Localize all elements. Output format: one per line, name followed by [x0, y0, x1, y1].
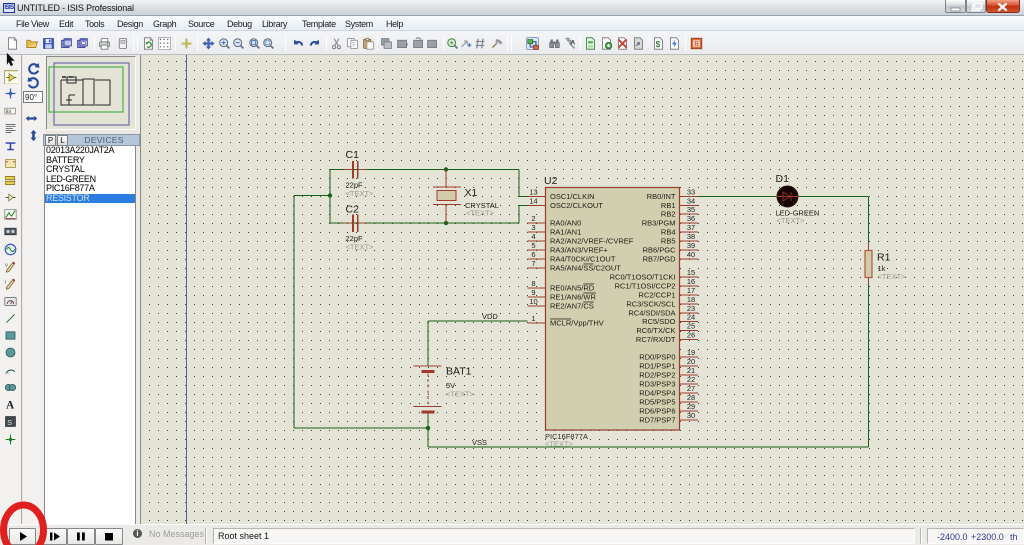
svg-text:RB3/PGM: RB3/PGM: [642, 219, 676, 228]
svg-text:<TEXT>: <TEXT>: [878, 272, 907, 281]
svg-text:RC7/RX/DT: RC7/RX/DT: [636, 335, 676, 344]
wire LED: [698, 196, 869, 198]
resistor R1: [868, 243, 870, 252]
capacitor C1: [344, 161, 367, 179]
svg-text:$: $: [656, 40, 661, 49]
svg-text:lbl: lbl: [6, 109, 11, 115]
svg-text:RE0/AN5/RD: RE0/AN5/RD: [550, 284, 595, 293]
wire junction to left: [294, 195, 330, 197]
svg-text:VDD: VDD: [482, 312, 498, 321]
svg-text:<TEXT>: <TEXT>: [346, 243, 375, 252]
svg-text:RD7/PSP7: RD7/PSP7: [639, 416, 675, 425]
svg-text:RA1/AN1: RA1/AN1: [550, 228, 581, 237]
svg-text:4: 4: [531, 232, 535, 241]
wire pin13 h: [519, 196, 528, 198]
svg-text:RA3/AN3/VREF+: RA3/AN3/VREF+: [550, 246, 608, 255]
node battery-VSS: [426, 426, 430, 430]
svg-text:<TEXT>: <TEXT>: [446, 390, 475, 399]
capacitor C2: [344, 215, 367, 233]
svg-text:RA2/AN2/VREF-/CVREF: RA2/AN2/VREF-/CVREF: [550, 237, 634, 246]
svg-text:U2: U2: [544, 175, 558, 187]
svg-text:V: V: [5, 263, 9, 269]
pin 35 stub: [680, 213, 699, 215]
svg-text:RC1/T1OSI/CCP2: RC1/T1OSI/CCP2: [615, 282, 676, 291]
svg-text:RA0/AN0: RA0/AN0: [550, 219, 581, 228]
pin 29 stub: [680, 410, 699, 412]
pin 16 stub: [680, 285, 699, 287]
node crystal bottom: [444, 221, 448, 225]
pin 8 stub: [528, 287, 546, 289]
pin 1 stub: [528, 322, 546, 324]
svg-text:RA4/T0CKI/C1OUT: RA4/T0CKI/C1OUT: [550, 255, 616, 264]
svg-text:25: 25: [687, 322, 695, 331]
svg-text:10: 10: [529, 297, 537, 306]
svg-text:39: 39: [687, 241, 695, 250]
svg-text:RC6/TX/CK: RC6/TX/CK: [636, 326, 675, 335]
svg-text:21: 21: [687, 366, 695, 375]
svg-text:6: 6: [531, 250, 535, 259]
svg-text:A: A: [571, 39, 576, 46]
svg-text:RD3/PSP3: RD3/PSP3: [639, 380, 675, 389]
node crystal top: [444, 167, 448, 171]
svg-text:8: 8: [531, 279, 535, 288]
svg-text:2: 2: [531, 214, 535, 223]
pin 26 stub: [680, 339, 699, 341]
pin 13 stub: [528, 196, 546, 198]
svg-text:20: 20: [687, 357, 695, 366]
svg-text:RC3/SCK/SCL: RC3/SCK/SCL: [626, 300, 675, 309]
svg-text:RB4: RB4: [661, 228, 676, 237]
svg-text:RD4/PSP4: RD4/PSP4: [639, 389, 675, 398]
svg-text:RC2/CCP1: RC2/CCP1: [638, 291, 675, 300]
pin 37 stub: [680, 231, 699, 233]
pin 30 stub: [680, 419, 699, 421]
svg-text:BAT1: BAT1: [446, 366, 472, 378]
schematic canvas: [140, 55, 1024, 524]
svg-text:C1: C1: [346, 149, 360, 161]
svg-text:24: 24: [687, 313, 695, 322]
wire bottom left: [294, 427, 428, 429]
svg-text:RA5/AN4/SS/C2OUT: RA5/AN4/SS/C2OUT: [550, 264, 621, 273]
wire pin14 h: [519, 205, 528, 207]
toolbar: [0, 31, 1024, 55]
pin 10 stub: [528, 305, 546, 307]
pin 28 stub: [680, 401, 699, 403]
svg-text:35: 35: [687, 205, 695, 214]
svg-text:RD2/PSP2: RD2/PSP2: [639, 371, 675, 380]
wire VDD: [428, 320, 528, 322]
wire battery top: [427, 321, 429, 366]
svg-text:22: 22: [687, 375, 695, 384]
pin 15 stub: [680, 276, 699, 278]
svg-text:38: 38: [687, 232, 695, 241]
pin 19 stub: [680, 356, 699, 358]
wire left link: [329, 170, 331, 224]
pin 21 stub: [680, 374, 699, 376]
svg-text:27: 27: [687, 384, 695, 393]
svg-text:14: 14: [529, 197, 537, 206]
svg-text:MCLR/Vpp/THV: MCLR/Vpp/THV: [550, 319, 604, 328]
svg-text:<TEXT>: <TEXT>: [346, 189, 375, 198]
svg-text:RC5/SDO: RC5/SDO: [642, 317, 676, 326]
svg-text:RB6/PGC: RB6/PGC: [643, 246, 677, 255]
wire battery bottom: [427, 412, 429, 447]
pin 4 stub: [528, 240, 546, 242]
svg-text:RD1/PSP1: RD1/PSP1: [639, 362, 675, 371]
svg-text:RB7/PGD: RB7/PGD: [643, 255, 677, 264]
pin 20 stub: [680, 365, 699, 367]
pin 6 stub: [528, 258, 546, 260]
svg-text:OSC1/CLKIN: OSC1/CLKIN: [550, 192, 595, 201]
pin 22 stub: [680, 383, 699, 385]
wire R1 bottom: [868, 283, 870, 447]
wire R1 top: [868, 197, 870, 243]
pin 3 stub: [528, 231, 546, 233]
pin 39 stub: [680, 249, 699, 251]
crystal X1: [433, 170, 461, 224]
pin 14 stub: [528, 205, 546, 207]
pin 18 stub: [680, 303, 699, 305]
svg-text:RD6/PSP6: RD6/PSP6: [639, 407, 675, 416]
svg-text:19: 19: [687, 348, 695, 357]
battery BAT1: [414, 366, 442, 412]
svg-text:A: A: [6, 400, 15, 411]
wire VSS rail: [428, 446, 869, 448]
wire C1 rail: [330, 169, 519, 171]
svg-text:18: 18: [687, 295, 695, 304]
svg-text:40: 40: [687, 250, 695, 259]
svg-text:17: 17: [687, 286, 695, 295]
svg-text:C2: C2: [346, 204, 360, 216]
title bar: [0, 0, 1024, 16]
svg-text:S: S: [7, 418, 12, 427]
svg-text:37: 37: [687, 223, 695, 232]
svg-text:1: 1: [531, 314, 535, 323]
svg-text:RE1/AN6/WR: RE1/AN6/WR: [550, 293, 596, 302]
menu bar: [0, 16, 1024, 31]
pin 5 stub: [528, 249, 546, 251]
svg-text:R1: R1: [877, 252, 891, 264]
svg-text:RE2/AN7/CS: RE2/AN7/CS: [550, 302, 594, 311]
svg-text:RB5: RB5: [661, 237, 676, 246]
pin 38 stub: [680, 240, 699, 242]
LED D1: [777, 186, 798, 207]
wire left vertical: [293, 196, 295, 429]
pin 33 stub: [680, 196, 699, 198]
svg-text:RD5/PSP5: RD5/PSP5: [639, 398, 675, 407]
pin 25 stub: [680, 330, 699, 332]
pin 27 stub: [680, 392, 699, 394]
wire pin13 v: [518, 170, 520, 197]
sheet border: [186, 55, 188, 524]
svg-text:VSS: VSS: [472, 438, 487, 447]
pin 23 stub: [680, 312, 699, 314]
svg-text:OSC2/CLKOUT: OSC2/CLKOUT: [550, 201, 603, 210]
svg-text:<TEXT>: <TEXT>: [545, 440, 574, 449]
svg-text:7: 7: [531, 259, 535, 268]
svg-text:15: 15: [687, 268, 695, 277]
svg-text:RC0/T1OSO/T1CKI: RC0/T1OSO/T1CKI: [610, 273, 676, 282]
svg-text:D1: D1: [776, 173, 790, 185]
wire C2 rail: [330, 222, 519, 224]
svg-text:X1: X1: [465, 187, 478, 199]
svg-text:RB0/INT: RB0/INT: [647, 192, 676, 201]
U2 body: [546, 188, 680, 431]
pin 9 stub: [528, 296, 546, 298]
svg-text:29: 29: [687, 402, 695, 411]
pin 7 stub: [528, 267, 546, 269]
svg-text:<TEXT>: <TEXT>: [466, 209, 495, 218]
pin 2 stub: [528, 222, 546, 224]
svg-text:RD0/PSP0: RD0/PSP0: [639, 353, 675, 362]
svg-text:16: 16: [687, 277, 695, 286]
wire pin14 v: [518, 206, 520, 224]
svg-text:3: 3: [531, 223, 535, 232]
svg-text:28: 28: [687, 393, 695, 402]
node C1-left junction: [328, 193, 332, 197]
svg-text:26: 26: [687, 331, 695, 340]
svg-text:<TEXT>: <TEXT>: [777, 216, 806, 225]
svg-text:RB2: RB2: [661, 210, 676, 219]
pin 34 stub: [680, 205, 699, 207]
svg-text:30: 30: [687, 411, 695, 420]
svg-text:36: 36: [687, 214, 695, 223]
pin 24 stub: [680, 321, 699, 323]
svg-text:9: 9: [531, 288, 535, 297]
pin 36 stub: [680, 222, 699, 224]
svg-text:13: 13: [529, 188, 537, 197]
pin 17 stub: [680, 294, 699, 296]
svg-text:33: 33: [687, 188, 695, 197]
svg-text:5: 5: [531, 241, 535, 250]
svg-text:I: I: [5, 280, 6, 286]
pin 40 stub: [680, 258, 699, 260]
